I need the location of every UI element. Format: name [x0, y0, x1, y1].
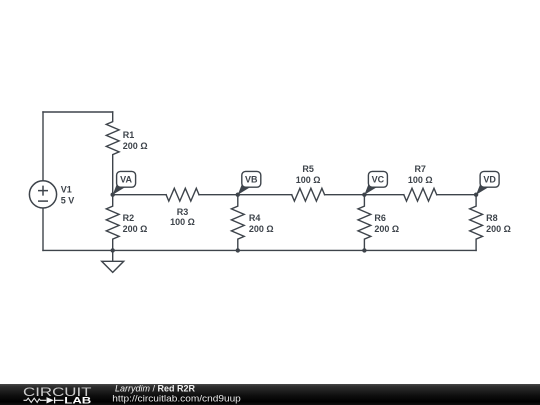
- svg-text:200 Ω: 200 Ω: [249, 224, 274, 234]
- resistor R4: [231, 195, 244, 251]
- node dot VC: [362, 193, 366, 197]
- resistor R1: [106, 112, 119, 195]
- svg-text:200 Ω: 200 Ω: [374, 224, 399, 234]
- logo zigzag wire: [24, 398, 47, 402]
- wire bottom: [43, 249, 476, 251]
- labels: [61, 130, 511, 234]
- node dot VB: [236, 193, 240, 197]
- resistor R6: [358, 195, 371, 251]
- svg-text:R2: R2: [123, 213, 135, 223]
- svg-text:200 Ω: 200 Ω: [123, 141, 148, 151]
- svg-text:VB: VB: [245, 175, 258, 185]
- node dot bottom VC: [362, 248, 366, 252]
- wire left vertical: [42, 112, 44, 250]
- logo diode: [47, 397, 54, 403]
- svg-text:VA: VA: [120, 175, 132, 185]
- svg-text:5 V: 5 V: [61, 195, 75, 205]
- node label VD: [476, 171, 499, 194]
- node dot ground: [111, 248, 115, 252]
- svg-text:R1: R1: [123, 130, 135, 140]
- svg-text:VC: VC: [372, 175, 385, 185]
- node label VA: [113, 171, 136, 194]
- resistor R3: [166, 188, 199, 201]
- svg-text:100 Ω: 100 Ω: [296, 175, 321, 185]
- node label VB: [238, 171, 261, 194]
- node label VC: [364, 171, 387, 194]
- svg-text:VD: VD: [483, 175, 496, 185]
- resistor R2: [106, 195, 119, 251]
- svg-text:R6: R6: [374, 213, 386, 223]
- wire R7-VD: [437, 194, 476, 196]
- footer bar: [0, 384, 540, 405]
- wire top: [43, 111, 113, 113]
- svg-text:LAB: LAB: [64, 395, 91, 405]
- node dot VA: [111, 193, 115, 197]
- svg-text:R4: R4: [249, 213, 261, 223]
- wire R3-VB: [199, 194, 292, 196]
- node dot VD: [474, 193, 478, 197]
- wire R5-VC: [325, 194, 404, 196]
- svg-text:http://circuitlab.com/cnd9uup: http://circuitlab.com/cnd9uup: [112, 393, 241, 403]
- svg-text:200 Ω: 200 Ω: [486, 224, 511, 234]
- svg-text:R8: R8: [486, 213, 498, 223]
- ground: [112, 250, 114, 261]
- wire VA-R3: [113, 194, 166, 196]
- resistor R8: [470, 195, 483, 251]
- node dot bottom VB: [236, 248, 240, 252]
- resistor R5: [292, 188, 325, 201]
- svg-text:R5: R5: [302, 164, 314, 174]
- svg-text:R7: R7: [414, 164, 426, 174]
- resistor R7: [404, 188, 437, 201]
- svg-text:100 Ω: 100 Ω: [170, 217, 195, 227]
- svg-text:R3: R3: [177, 207, 189, 217]
- svg-text:V1: V1: [61, 185, 72, 195]
- svg-text:100 Ω: 100 Ω: [408, 175, 433, 185]
- voltage source V1: [29, 181, 56, 208]
- svg-text:Larrydim / Red R2R: Larrydim / Red R2R: [115, 383, 196, 393]
- svg-text:200 Ω: 200 Ω: [123, 224, 148, 234]
